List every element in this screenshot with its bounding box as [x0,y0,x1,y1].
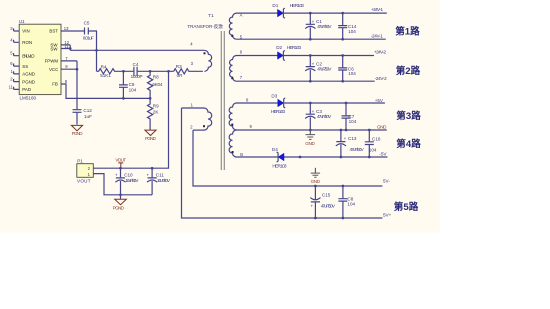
svg-text:+: + [312,19,315,24]
U1 pin PGND (2) [10,77,35,85]
ground PGND under C12 [71,125,83,136]
svg-text:C5: C5 [84,21,90,26]
transformer T1 core [221,31,224,170]
svg-text:+: + [344,136,347,141]
node FB/C9 junction [122,97,125,100]
svg-text:PGND: PGND [145,136,157,141]
wire channel1 bottom rail [237,38,386,40]
svg-text:+: + [311,203,314,208]
svg-text:-5V: -5V [379,151,387,156]
svg-text:B: B [240,152,243,157]
node C9 junction [122,70,125,73]
svg-text:104: 104 [347,201,355,206]
svg-text:D3: D3 [271,94,277,99]
svg-text:LM5160: LM5160 [20,95,37,100]
U1 pin BST (13) [49,26,69,34]
node GND/C15 top [314,185,317,188]
svg-text:PGND: PGND [113,205,125,210]
svg-text:GND: GND [377,125,387,130]
svg-text:PGND: PGND [72,131,84,136]
node C2 top [309,54,312,57]
transformer T1 secondary winding 6-7 [230,50,243,82]
resistor R9 2K [148,98,160,130]
wire C5 to SW node and down to R4 [88,31,96,71]
svg-text:+: + [312,109,315,114]
svg-text:第2路: 第2路 [396,65,421,77]
svg-text:51K1: 51K1 [100,73,111,78]
svg-text:HER103: HER103 [290,3,305,8]
capacitor C15 47uF/50V (inverted) [310,186,336,218]
node C2 bottom [309,80,312,83]
capacitor C2 47uF/50V [305,56,332,82]
wire BST to C5 [61,30,85,32]
svg-text:+24V-1: +24V-1 [371,7,383,12]
node C13 top [340,129,343,132]
U1 pin SW (11) [50,44,69,52]
svg-text:+5V: +5V [375,98,384,103]
wire T1 pin2 down to 5V- rail [193,130,382,186]
U1 pin AGND (1) [11,69,35,77]
node C7 top [345,102,348,105]
svg-text:C16: C16 [372,136,381,141]
node C10 bottom junction [119,193,122,196]
diode D4 HER103 (reversed) [272,147,287,169]
svg-text:TRANSFOR-反激: TRANSFOR-反激 [187,23,223,30]
svg-text:C12: C12 [83,108,92,113]
resistor R3 0R [174,64,203,78]
node VCC junction [76,68,79,71]
svg-text:+: + [147,172,150,177]
ground GND above 5V- rail [311,168,321,184]
node C3 top [309,102,312,105]
capacitor C13 47uF/50V [336,130,365,157]
node C15 bottom [314,217,317,220]
wire channel4 bottom rail [237,156,388,158]
svg-text:10uF/50V: 10uF/50V [157,178,171,183]
power port VOUT [115,158,126,169]
svg-text:104: 104 [348,71,356,76]
wire C4 to R8 node to R3 [137,70,174,72]
svg-text:U1: U1 [19,19,25,24]
node C16 bottom [368,156,371,159]
wire channel1 top rail [237,12,387,14]
node C14 bottom [341,38,344,41]
svg-text:0R: 0R [177,73,184,78]
wire GND mid rail pin 9 [237,129,387,131]
svg-text:第1路: 第1路 [395,26,420,38]
U1 pin RON (4) [10,37,32,45]
svg-text:GND: GND [305,141,315,146]
capacitor C11 10uF/50V [147,168,171,195]
svg-text:GND: GND [311,179,321,184]
node FB/R8/R9 junction [149,97,152,100]
U1 pin VIN (3) [10,26,29,34]
svg-text:47uF/50V: 47uF/50V [350,147,365,152]
ground PGND under R9 [145,130,157,141]
svg-text:HER103: HER103 [272,164,287,169]
node C1 top [309,12,312,15]
svg-text:2K: 2K [153,109,160,114]
wire T1 pin1 down to 5V+ rail [182,108,383,218]
node C16 top [368,129,371,132]
svg-text:104: 104 [369,147,377,152]
svg-text:SS: SS [22,64,28,69]
svg-text:AGND: AGND [22,72,35,77]
node C14 top [341,12,344,15]
resistor R4 51K1 [97,64,118,78]
node SW/C5 junction [95,49,98,52]
capacitor C3 47uF/50V [305,103,332,130]
connector P1 VOUT [77,159,94,184]
wire SW pins [61,45,70,50]
svg-text:D4: D4 [272,147,278,152]
svg-text:VOUT: VOUT [115,158,126,163]
svg-text:5V+: 5V+ [383,213,392,218]
svg-text:HER103: HER103 [271,109,286,114]
capacitor C7 104 [342,103,357,130]
svg-text:C13: C13 [348,136,357,141]
node C6 top [341,54,344,57]
diode D1 HER103 [272,3,304,18]
U1 pin PAD (11) [9,84,31,92]
svg-text:FPWM: FPWM [45,58,59,63]
node R8 top junction [149,70,152,73]
transformer T1 primary winding pins 4-3 [190,41,211,71]
svg-text:第4路: 第4路 [396,138,421,150]
svg-text:47uF/50V: 47uF/50V [321,203,336,208]
svg-text:C10: C10 [124,172,133,177]
node C7 bottom [345,129,348,132]
svg-text:T1: T1 [208,13,214,18]
svg-text:-24V-1: -24V-1 [371,34,383,39]
svg-text:1uF: 1uF [84,114,92,119]
U1 pin VCC (9) [49,64,68,72]
svg-text:47uF/50V: 47uF/50V [317,24,332,29]
svg-text:D2: D2 [276,45,282,50]
svg-text:13: 13 [64,26,69,31]
svg-text:47uF/50V: 47uF/50V [317,66,332,71]
capacitor C4 1000P [131,62,143,79]
svg-text:C4: C4 [133,62,139,67]
wire FPWM/VCC tie down to C12 [61,61,77,110]
svg-text:0.01uF: 0.01uF [83,36,94,41]
svg-text:HER103: HER103 [287,45,302,50]
svg-text:第5路: 第5路 [394,201,419,213]
svg-text:EN/UVLO: EN/UVLO [22,53,35,58]
wire channel2 bottom rail [237,80,375,82]
wire channel2 top rail [237,55,375,57]
svg-text:BST: BST [49,29,58,34]
op-amp/regulator U1 LM5160 body [19,19,61,100]
U1 pin FPWM (7) [45,56,69,64]
svg-text:6K04: 6K04 [152,82,162,87]
svg-text:10uF/50V: 10uF/50V [125,178,139,183]
svg-text:+: + [312,62,315,67]
node VOUT branch junction [167,70,170,73]
U1 pin SW (12) [50,40,69,48]
U1 pin SS (6) [10,61,28,69]
svg-text:C11: C11 [156,172,165,177]
svg-text:104: 104 [129,87,137,92]
svg-text:RON: RON [22,40,32,45]
wire VOUT branch from R3 node down to output rail [93,71,168,168]
svg-text:104: 104 [349,119,357,124]
svg-text:PAD: PAD [22,87,31,92]
svg-text:PGND: PGND [22,79,35,84]
svg-text:VCC: VCC [49,67,58,72]
capacitor C12 1uF [73,108,93,124]
svg-text:C15: C15 [322,192,331,197]
transformer T1 labels [187,13,223,30]
svg-text:SW: SW [50,46,58,51]
node C3 bottom [309,129,312,132]
svg-text:5V-: 5V- [383,179,390,184]
svg-text:R8: R8 [153,75,159,80]
transformer T1 secondary winding 9-B [229,130,243,157]
capacitor C5 0.01uF [83,21,94,41]
node VOUT/C10 junction [119,167,122,170]
svg-text:+: + [115,172,118,177]
svg-text:VIN: VIN [22,29,29,34]
node C1 bottom [309,38,312,41]
node channel4 junction [299,156,302,159]
node C8 top [342,185,345,188]
ground PGND under C10 [113,195,127,211]
svg-text:R3: R3 [176,64,182,69]
node C6 bottom [341,80,344,83]
svg-text:47uF/50V: 47uF/50V [317,114,332,119]
wire channel3 top rail [237,102,385,104]
svg-text:P1: P1 [77,159,83,164]
transformer T1 secondary winding 8-9 [229,97,252,130]
svg-text:R9: R9 [153,104,159,109]
capacitor C9 104 [119,71,137,98]
node SW pins junction [69,47,72,50]
node C11 top junction [151,167,154,170]
transformer T1 primary winding pins 1-2 [182,102,212,130]
capacitor C6 104 [338,56,356,82]
capacitor C8 104 [338,186,355,218]
svg-text:R4: R4 [101,64,107,69]
svg-text:1000P: 1000P [131,74,143,79]
svg-text:FB: FB [52,82,58,87]
U1 pin EN/UVLO (5) [10,51,35,59]
U1 pin FB (8) [52,79,68,87]
wire SW rail to transformer pin 4 [70,49,204,51]
svg-text:第3路: 第3路 [396,110,421,122]
capacitor C14 104 [338,13,357,39]
svg-text:D1: D1 [272,3,278,8]
svg-text:C9: C9 [129,82,135,87]
wire P1 pin1 to ground rail [93,174,152,195]
ground GND under C3 [305,130,315,146]
svg-text:104: 104 [348,29,356,34]
capacitor C16 104 [365,130,381,157]
wire R4 to C4 [118,70,134,72]
capacitor C10 10uF/50V [115,168,139,195]
resistor R8 6K04 [148,71,163,98]
svg-text:-24V-2: -24V-2 [375,76,387,81]
wire FB pin to divider [61,84,150,98]
svg-text:11: 11 [9,84,14,89]
diode D3 HER103 [271,94,286,115]
svg-text:VOUT: VOUT [77,179,91,184]
capacitor C1 47uF/50V [305,13,332,39]
node C13 bottom [340,156,343,159]
svg-text:+24V-2: +24V-2 [374,49,386,54]
transformer T1 secondary winding A-5 [229,12,242,39]
diode D2 HER103 [276,45,301,61]
node C8 bottom [342,217,345,220]
